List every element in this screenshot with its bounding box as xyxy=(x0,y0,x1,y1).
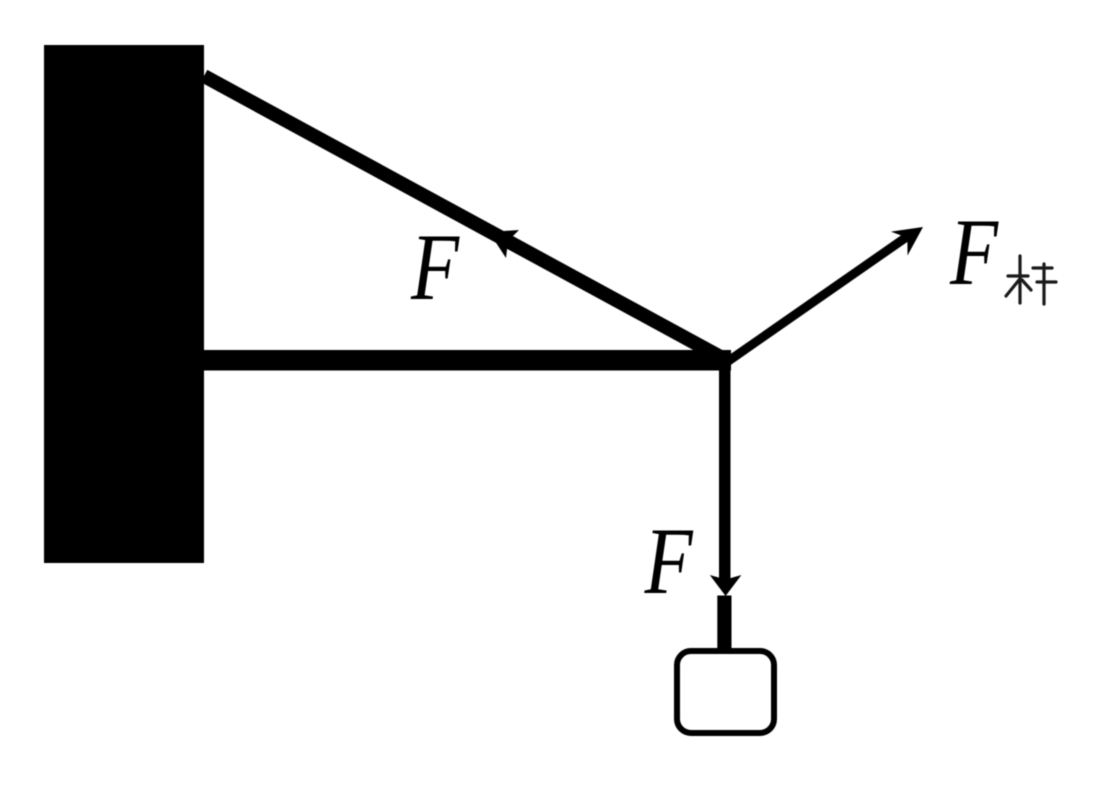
svg-text:F: F xyxy=(949,199,999,305)
svg-text:F: F xyxy=(644,508,694,614)
svg-text:F: F xyxy=(410,214,460,320)
